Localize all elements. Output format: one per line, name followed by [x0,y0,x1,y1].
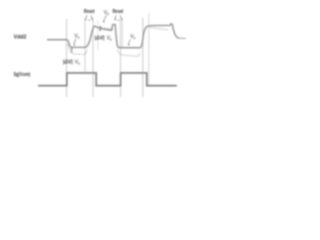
wire Vs arrow to valley 2 [129,39,131,44]
svg-text:s: s [78,35,80,39]
wire trace tail light [179,37,186,39]
svg-text:|ΔV|: |ΔV| [63,60,73,66]
svg-text:Reset: Reset [113,9,124,15]
svg-text:Vdd2: Vdd2 [14,34,27,40]
wire vertical period line x=93 [92,20,94,97]
wire Vs arrow to dome 1 [104,15,107,21]
wire reset2 right arrow [120,15,122,19]
wire dashed decay on dome 1 [96,27,112,29]
wire reset-start line x=85 [84,20,86,73]
wire Vdd2 waveform trace [48,24,179,48]
wire reset-end line x=122.3 [121,20,123,48]
wire faint line x=97.8 [97,21,99,50]
svg-text:Reset: Reset [84,9,95,15]
wire vertical period line x=142.7 [142,18,144,98]
wire reset1 left arrow [86,15,87,19]
svg-text:s: s [78,62,80,66]
wire faint line x=148.8 [148,13,150,86]
wire dashed decay under valley 1 [68,45,88,55]
wire deltaV double arrow dome 1 [99,27,101,30]
wire dashed decay under valley 2 [117,50,140,56]
wire reset1 right arrow [91,15,92,19]
svg-text:s: s [134,36,136,40]
wire vertical period line x=66.4 [66,19,68,97]
wire reset2 left arrow [114,15,117,19]
svg-text:Sg(Vcom): Sg(Vcom) [14,72,31,78]
svg-text:s: s [107,12,109,16]
svg-text:|ΔV|: |ΔV| [95,36,105,42]
svg-text:s: s [110,38,112,42]
wire vertical period line x=120.5 [120,20,122,97]
wire deltaV double arrow valley 1 [71,49,73,53]
wire Sg(Vcom) square wave [38,73,177,86]
wire Vs arrow to valley 1 [74,39,76,45]
wire dashed decay on dome 2 [150,28,168,30]
